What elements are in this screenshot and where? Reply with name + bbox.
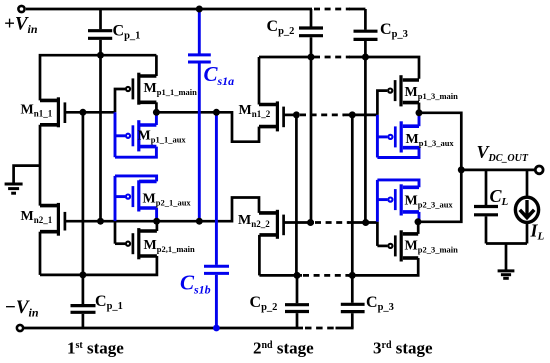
wire ground stem output	[505, 244, 508, 270]
transistor Mp1_1_main	[115, 55, 156, 112]
wire stage2-3 bottom gate dashed	[315, 221, 349, 224]
label +Vin	[4, 14, 38, 37]
wire stage1 top output	[156, 112, 259, 141]
wire bottom rail right	[336, 327, 354, 330]
transistor Mp1_3_aux	[377, 113, 419, 158]
node junction bottom node B	[79, 271, 86, 278]
wire node B vertical	[82, 112, 85, 275]
node junction node A / Mn2_1 gate	[97, 218, 104, 225]
wire stage2-3 bottom node dashed	[303, 274, 349, 277]
label 1st stage	[67, 339, 124, 358]
label IL	[530, 221, 545, 243]
node junction stage3 top gate	[349, 111, 356, 118]
label Mn1_1	[21, 103, 53, 119]
label Cs1a	[204, 62, 235, 88]
capacitor Cp_2 top	[299, 9, 323, 57]
wire top rail right	[349, 8, 365, 11]
wire output bottom	[486, 242, 527, 245]
terminal +Vin	[18, 6, 24, 12]
node junction Cp_2 top	[308, 54, 315, 61]
node junction Mn2_2 gate	[307, 219, 314, 226]
transistor Mn2_1	[40, 203, 65, 236]
capacitor Cp_1 bottom	[71, 275, 96, 328]
label Cs1b	[180, 271, 211, 297]
label Mp2_3_aux	[405, 194, 454, 210]
transistor Mp1_3_main	[377, 75, 419, 115]
ground output	[498, 271, 515, 278]
label Vdcout	[477, 142, 529, 164]
wire stage3 top node	[349, 57, 419, 79]
capacitor Cp_2 bottom	[285, 275, 309, 328]
wire stage1 gate bus (node A row)	[65, 198, 259, 222]
capacitor Cs1b	[204, 112, 229, 328]
transistor Mp1_1_aux	[115, 112, 156, 157]
transistor Mp2_3_main	[377, 222, 418, 262]
node junction Cp_2 bottom	[294, 272, 301, 279]
label Cp_1 bottom	[95, 293, 123, 312]
wire stage3 top gate	[343, 114, 377, 117]
label Mp1_1_aux	[138, 129, 187, 145]
node junction Cp_3 bottom	[349, 272, 356, 279]
terminal -Vin	[17, 325, 23, 331]
node junction gate Mn1_1 / node B	[79, 109, 86, 116]
wire node A top	[40, 55, 156, 100]
wire cross vertical Cp2top-gate	[310, 57, 313, 223]
wire cross vertical Cp2bottom-gate	[295, 115, 298, 276]
label Mn1_2	[239, 103, 271, 119]
capacitor Cp_3 bottom	[341, 275, 365, 328]
transistor Mp2_3_aux	[377, 180, 419, 222]
wire Mn1_1 source to Mn2_1 drain	[39, 125, 42, 206]
label Cp_1 top	[113, 23, 141, 42]
label Mp2_1_main	[144, 238, 196, 254]
label Cp_2 bottom	[250, 294, 278, 313]
terminal Vdcout	[535, 166, 543, 174]
label Mn2_2	[238, 213, 270, 229]
node junction Cs1b bottom rail	[213, 325, 220, 332]
node junction stage1 bottom output	[153, 218, 160, 225]
node junction Vdcout rail	[458, 166, 465, 173]
label Mp1_3_main	[405, 85, 459, 101]
wire stage2 bottom node	[259, 274, 302, 277]
wire stage1 bottom node	[40, 256, 157, 275]
wire cross vertical Cp3top-gate	[364, 57, 367, 223]
wire Mn2_1 source down	[39, 232, 42, 275]
wire stage2 top node	[259, 56, 313, 59]
capacitor Cs1a	[188, 9, 211, 221]
label Mp1_3_aux	[406, 132, 455, 148]
wire stage3 top output	[418, 113, 461, 222]
wire bottom rail solid	[24, 327, 303, 330]
node A vertical	[99, 55, 102, 221]
label Mn2_1	[21, 209, 53, 225]
label 3rd stage	[373, 339, 433, 358]
transistor Mn2_2	[259, 210, 314, 276]
label -Vin	[5, 297, 39, 320]
transistor Mn1_2	[259, 57, 299, 131]
wire stage2-3 top node dashed	[314, 56, 350, 59]
capacitor CL	[474, 170, 498, 244]
capacitor Cp_1 top	[88, 9, 112, 55]
transistor Mn1_1	[40, 97, 115, 127]
transistor Mp2_1_main	[115, 221, 157, 259]
label CL	[490, 186, 509, 208]
node junction stage1 top output	[153, 109, 160, 116]
wire top rail dashed	[314, 8, 350, 11]
node junction node A Cs1a	[196, 218, 203, 225]
wire stage3 bottom gate	[348, 221, 377, 224]
node junction Mn1_2 gate	[293, 111, 300, 118]
current source IL	[515, 170, 538, 244]
node junction stage3 top output	[416, 109, 423, 116]
capacitor Cp_3 top	[354, 9, 378, 57]
node junction Cp_3 top	[362, 54, 369, 61]
node junction stage1 output Cs1b	[213, 109, 220, 116]
wire Vdcout rail	[461, 169, 534, 172]
label Cp_2 top	[267, 18, 295, 37]
label Cp_3 top	[380, 21, 408, 40]
wire bottom rail dashed	[305, 327, 334, 330]
wire stage3 bottom node	[348, 258, 418, 275]
label Mp2_1_aux	[143, 191, 192, 207]
node junction stage3 bottom gate	[362, 219, 369, 226]
label 2nd stage	[253, 339, 314, 358]
node junction top rail Cs1a	[196, 6, 203, 13]
ground left	[5, 184, 23, 193]
node junction stage3 bottom output	[415, 218, 422, 225]
label Cp_3 bottom	[366, 294, 394, 313]
wire ground tap	[14, 166, 40, 183]
node junction Cp_1/nodeA	[97, 52, 104, 59]
transistor Mp2_1_aux	[115, 176, 157, 221]
label Mp2_3_main	[405, 239, 459, 255]
wire top rail solid	[26, 8, 312, 11]
label Mp1_1_main	[144, 81, 198, 97]
wire stage2-3 top gate dashed	[300, 114, 344, 117]
wire cross vertical Cp3bottom-gate	[351, 115, 354, 276]
